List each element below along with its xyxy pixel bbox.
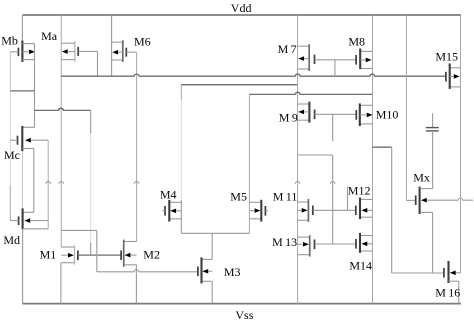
M1 source to Vss	[60, 263, 62, 304]
faint spine ghost Mc-Md	[21, 151, 23, 208]
M7/M8 gate wire	[315, 59, 357, 61]
wire Mb-tie to gate rail	[10, 90, 34, 92]
Mx source wire down	[432, 212, 434, 273]
M8-M14 trunk	[372, 15, 374, 304]
svg-text:M1: M1	[40, 248, 57, 262]
Ma-M1 trunk (Vdd to M1)	[60, 15, 62, 247]
Mx bulk lead to edge	[427, 199, 458, 201]
Vss ground rail	[22, 303, 461, 305]
svg-text:M10: M10	[376, 108, 399, 122]
M3 gate bias wire	[97, 271, 134, 273]
svg-text:M14: M14	[349, 258, 372, 272]
wire A: M4 drain to M7 drain	[181, 84, 297, 86]
capacitor Cc	[426, 127, 439, 129]
transistor M14 (NMOS)	[356, 233, 373, 253]
M9/M10 gate stub down	[332, 114, 334, 141]
svg-text:M 7: M 7	[278, 42, 297, 56]
svg-text:M8: M8	[348, 35, 365, 49]
Md source wire to Vss	[22, 229, 24, 303]
capacitor top lead	[432, 113, 434, 127]
svg-text:Mb: Mb	[1, 33, 18, 47]
transistor Mx (NMOS)	[406, 187, 432, 214]
svg-text:Mc: Mc	[4, 148, 20, 162]
capacitor bottom lead to Mx drain	[432, 131, 434, 189]
transistor M12 (NMOS cascode)	[356, 198, 373, 220]
M3 drain trunk	[211, 233, 213, 259]
M6 gate / M2 drain trunk	[136, 52, 138, 241]
M7-M13 trunk	[297, 15, 299, 304]
Mc/Md bulk tie vertical	[47, 140, 49, 229]
transistor M6 (PMOS)	[112, 40, 137, 62]
svg-text:M12: M12	[348, 183, 371, 197]
transistor M15 (PMOS output)	[446, 63, 461, 89]
Mc source tie down to Md drain	[33, 149, 35, 213]
svg-text:M3: M3	[224, 265, 241, 279]
wire Ma drain to M15 gate	[61, 75, 134, 77]
Mx gate wire from Vdd	[405, 15, 407, 200]
transistor M7 (PMOS cascode)	[298, 44, 315, 71]
M1/M2 gate wire	[78, 254, 121, 256]
transistor M10 (PMOS cascode)	[356, 103, 372, 126]
transistor Ma (PMOS)	[61, 41, 97, 62]
transistor M13 (NMOS)	[298, 235, 315, 256]
transistor M11 (NMOS cascode)	[298, 199, 313, 222]
Mb source/bulk tie wire down	[34, 44, 36, 128]
gate bias rail (Mb/Mc/Md gates)	[9, 52, 11, 92]
svg-text:M 11: M 11	[273, 190, 298, 204]
Vdd power rail	[23, 14, 461, 16]
transistor M16 (NMOS output)	[444, 261, 461, 283]
svg-text:Vss: Vss	[235, 308, 253, 322]
M15-M16 right trunk	[460, 15, 462, 273]
M2 source to Vss	[135, 265, 137, 304]
M13/M14 gate wire	[315, 243, 357, 245]
diff pair source wire	[181, 232, 249, 234]
transistor Mc (NMOS, diode chain middle)	[10, 126, 48, 151]
M9 source wire to M12 gate column	[298, 154, 333, 156]
wire M10 source to M16 gate	[373, 146, 392, 148]
M11/M12 gate wire	[313, 209, 356, 211]
transistor Mb (PMOS, diode chain top)	[10, 15, 35, 62]
svg-text:M6: M6	[134, 35, 151, 49]
transistor Md (NMOS, diode chain bottom)	[10, 208, 48, 229]
transistor M9 (PMOS cascode)	[298, 102, 315, 123]
wire B: M5 drain to M10 drain	[249, 93, 295, 95]
svg-text:M 9: M 9	[279, 110, 298, 124]
transistor M1 (NMOS current sink)	[61, 246, 78, 265]
svg-text:Mx: Mx	[413, 171, 430, 185]
M3 source to Vss	[211, 281, 213, 303]
svg-text:M 13: M 13	[272, 235, 297, 249]
wire M1 drain to gate bias chain	[61, 229, 97, 231]
M9/M10 gate wire	[315, 113, 357, 115]
svg-text:Ma: Ma	[41, 29, 58, 43]
Ma gate drop to output wire	[97, 51, 99, 76]
svg-text:M5: M5	[230, 189, 247, 203]
stub riser at M12	[347, 187, 349, 211]
bias wire W2 to M1/M2 gates	[35, 109, 59, 111]
svg-text:Md: Md	[3, 233, 20, 247]
transistor M4 (NMOS diff pair input)	[162, 200, 181, 222]
svg-text:Vdd: Vdd	[231, 1, 252, 15]
transistor M5 (NMOS diff pair input)	[249, 200, 267, 222]
svg-text:M 16: M 16	[435, 286, 460, 300]
transistor M2 (NMOS current sink)	[121, 240, 137, 267]
M6 trunk from Vdd	[111, 15, 113, 76]
transistor M3 (NMOS tail current source)	[198, 257, 212, 283]
M7/M8 gate tie to output wire	[334, 60, 336, 76]
transistor M8 (PMOS cascode)	[356, 49, 372, 70]
svg-text:M15: M15	[435, 49, 458, 63]
M5 drain trunk	[248, 94, 250, 233]
svg-text:M2: M2	[143, 248, 160, 262]
M16 source to Vss	[458, 281, 460, 303]
svg-text:M4: M4	[160, 187, 177, 201]
M4 drain trunk	[180, 85, 182, 100]
